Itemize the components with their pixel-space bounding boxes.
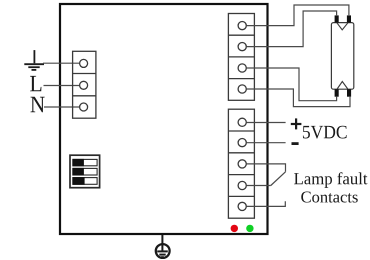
- wire earth to TB1-1: [43, 62, 79, 64]
- terminal TB2-4: [238, 85, 246, 93]
- label L: [30, 76, 41, 91]
- wire TB3-1 (+5VDC): [247, 122, 286, 124]
- terminal TB2-3: [238, 64, 246, 72]
- chassis earth symbol: [156, 244, 170, 258]
- lamp bottom filament chevron: [337, 82, 348, 90]
- terminal TB3-5: [238, 202, 246, 210]
- wire TB3-4 (contact common): [247, 185, 271, 187]
- wire TB2-2 to lamp top-left pin: [247, 11, 337, 47]
- terminal block TB1: [73, 51, 96, 118]
- LED green DS2: [246, 225, 253, 232]
- wire TB3-3 with contact stub: [247, 164, 286, 172]
- wire TB2-4 to lamp bottom-right pin: [247, 89, 351, 107]
- DIP switch SW1 position 1: [73, 159, 97, 165]
- DIP switch SW1 position 3: [73, 178, 97, 185]
- label N: [31, 97, 45, 112]
- label Lamp fault: [294, 172, 367, 188]
- terminal block TB3: [228, 109, 254, 218]
- terminal TB2-1: [238, 22, 246, 30]
- plus sign: [291, 118, 302, 129]
- ground symbol (mains earth): [24, 50, 44, 70]
- lamp pin top-right: [347, 15, 351, 22]
- DIP switch SW1: [70, 155, 100, 188]
- wire TB3-2 (-): [247, 142, 286, 144]
- LED red DS1: [231, 225, 238, 232]
- terminal block TB2: [228, 14, 254, 101]
- lamp LP1 tube: [331, 23, 353, 90]
- terminal TB1-3: [80, 103, 88, 111]
- terminal TB3-3: [238, 160, 246, 168]
- lamp pin bottom-left: [335, 89, 339, 96]
- terminal TB1-2: [80, 81, 88, 89]
- terminal TB3-4: [238, 181, 246, 189]
- contact blade (lamp fault switch): [271, 172, 286, 186]
- wire N to TB1-3: [44, 106, 79, 108]
- terminal TB1-1: [80, 59, 88, 67]
- terminal TB3-2: [238, 139, 246, 147]
- DIP switch SW1 position 2: [73, 168, 97, 175]
- enclosure box U1: [60, 4, 268, 234]
- wire TB2-3 to lamp bottom-left pin: [247, 68, 337, 101]
- label Contacts: [301, 191, 357, 202]
- label 5VDC: [303, 126, 347, 139]
- wire TB2-1 to lamp top-right pin: [247, 5, 349, 26]
- minus sign: [292, 142, 299, 145]
- terminal TB3-1: [238, 118, 246, 126]
- terminal TB2-2: [238, 43, 246, 51]
- chassis earth stem: [161, 235, 163, 251]
- wire L to TB1-2: [44, 85, 80, 87]
- lamp pin top-left: [335, 15, 339, 22]
- lamp pin bottom-right: [347, 89, 351, 96]
- wire TB3-5 with up stub: [247, 201, 286, 206]
- lamp top filament chevron: [337, 23, 348, 30]
